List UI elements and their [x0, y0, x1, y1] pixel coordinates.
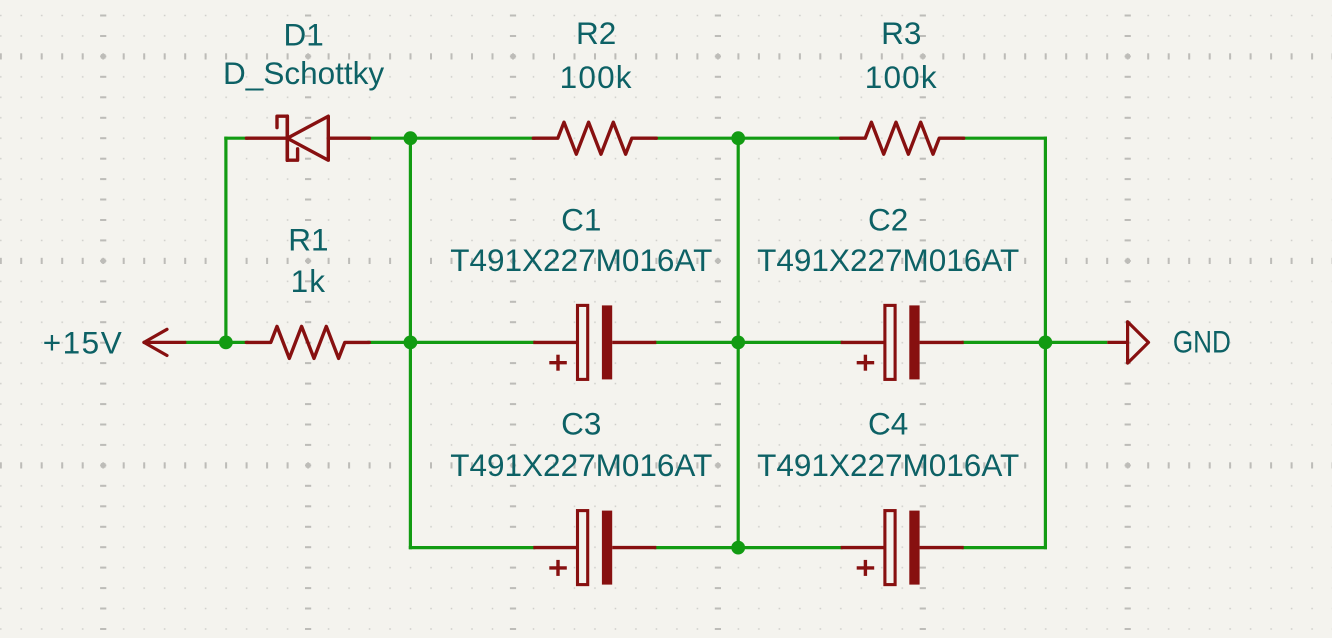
svg-text:R1: R1 [288, 221, 328, 257]
capacitor C2 [841, 305, 964, 379]
svg-text:+15V: +15V [43, 324, 123, 360]
junction top-left [404, 131, 418, 145]
wire vertical left branch [224, 137, 227, 343]
junction mid +15V [219, 336, 233, 350]
wire vertical node C [737, 138, 740, 547]
diode D1 D_Schottky [246, 116, 369, 160]
capacitor C3 [533, 511, 656, 585]
svg-text:GND: GND [1173, 325, 1231, 360]
svg-text:C2: C2 [868, 201, 908, 237]
junction bottom [731, 541, 745, 555]
junction mid-right [1039, 336, 1053, 350]
wire top rail left segment [224, 137, 248, 140]
svg-text:R3: R3 [881, 15, 921, 51]
svg-text:100k: 100k [865, 59, 938, 95]
wire top rail right segment [962, 137, 1047, 140]
svg-text:D_Schottky: D_Schottky [223, 55, 384, 91]
wire bottom rail left [409, 546, 536, 549]
wire mid rail R1-C1 [367, 341, 535, 344]
junction mid-left [404, 336, 418, 350]
capacitor C4 [841, 511, 964, 585]
svg-text:T491X227M016AT: T491X227M016AT [757, 447, 1019, 483]
wire GND lead [1107, 341, 1127, 344]
svg-text:T491X227M016AT: T491X227M016AT [450, 242, 712, 278]
svg-text:D1: D1 [283, 17, 323, 53]
svg-text:R2: R2 [576, 15, 616, 51]
resistor R1 [246, 326, 369, 358]
wire bottom rail C3-C4 [654, 546, 842, 549]
svg-text:C3: C3 [561, 406, 601, 442]
svg-text:1k: 1k [291, 263, 327, 299]
capacitor C1 [533, 305, 656, 379]
wire top rail R2-R3 [654, 137, 842, 140]
wire bottom rail right [962, 546, 1047, 549]
wire mid rail C1-C2 [654, 341, 842, 344]
svg-text:100k: 100k [560, 59, 633, 95]
svg-text:C1: C1 [561, 201, 601, 237]
svg-text:T491X227M016AT: T491X227M016AT [450, 447, 712, 483]
junction mid-center [731, 336, 745, 350]
wire vertical node B [409, 138, 412, 549]
wire vertical right branch [1044, 137, 1047, 550]
power label +15V arrow [144, 329, 185, 355]
wire top rail D1-R2 [367, 137, 535, 140]
junction top-right [731, 131, 745, 145]
wire mid rail C2-GND [962, 341, 1108, 344]
svg-text:T491X227M016AT: T491X227M016AT [757, 242, 1019, 278]
power label GND arrow [1128, 322, 1149, 363]
resistor R3 [841, 122, 964, 154]
svg-text:C4: C4 [868, 406, 908, 442]
wire mid rail from +15V [185, 341, 249, 344]
resistor R2 [533, 122, 656, 154]
